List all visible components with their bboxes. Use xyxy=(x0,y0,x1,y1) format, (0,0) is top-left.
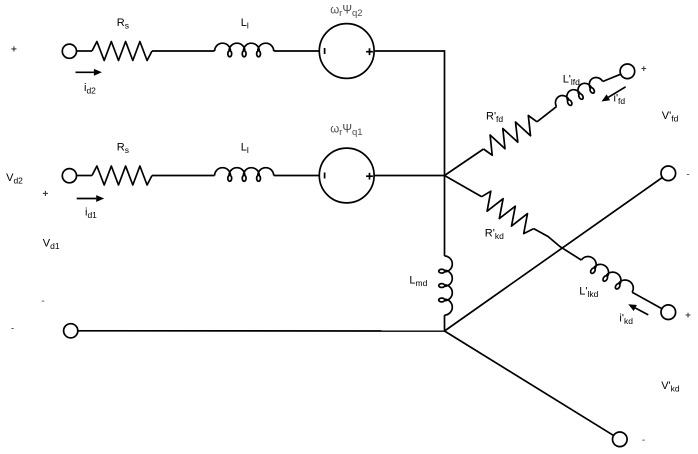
svg-text:R'kd: R'kd xyxy=(485,228,504,242)
svg-text:L'lkd: L'lkd xyxy=(579,286,598,300)
terminal T7 (damper -) xyxy=(613,432,628,447)
svg-text:+: + xyxy=(42,189,48,200)
inductor L'lfd xyxy=(553,75,606,112)
wire xyxy=(534,229,582,261)
terminal T2 (d1 input) xyxy=(62,169,76,183)
wire xyxy=(632,292,662,309)
svg-text:Ll: Ll xyxy=(241,142,249,156)
inductor L'lkd xyxy=(578,254,636,298)
svg-text:i'fd: i'fd xyxy=(614,93,626,107)
svg-text:R'fd: R'fd xyxy=(486,111,503,125)
svg-text:Rs: Rs xyxy=(117,17,129,31)
U1 plus terminal mark xyxy=(366,51,373,53)
wire (bottom rail) xyxy=(78,330,445,332)
U1 minus terminal mark xyxy=(324,48,326,54)
wire (node A to Lmd) xyxy=(444,176,446,257)
wire xyxy=(274,175,320,177)
wire (node A to Rkd) xyxy=(445,176,482,197)
svg-text:+: + xyxy=(11,45,17,56)
wire xyxy=(77,175,93,177)
wire xyxy=(152,50,215,52)
resistor Rs (row 1) xyxy=(92,42,152,61)
wire xyxy=(374,51,444,176)
wire (node B to damper minus terminal) xyxy=(445,331,614,436)
inductor Ll (row 1) xyxy=(215,43,274,57)
resistor R'fd xyxy=(484,116,538,156)
inductor Lmd (magnetizing) xyxy=(439,256,453,315)
svg-text:V'fd: V'fd xyxy=(662,110,679,124)
current arrow i'fd xyxy=(608,87,625,98)
svg-text:ωrΨq2: ωrΨq2 xyxy=(330,5,362,20)
svg-text:V'kd: V'kd xyxy=(661,380,680,394)
U2 minus terminal mark xyxy=(324,173,326,179)
svg-text:Ll: Ll xyxy=(241,17,249,31)
svg-text:-: - xyxy=(686,169,689,180)
current arrow id2 xyxy=(76,71,94,73)
terminal T5 (damper +) xyxy=(661,305,676,320)
svg-text:-: - xyxy=(642,435,645,446)
current arrow i'kd xyxy=(635,308,648,315)
svg-text:id1: id1 xyxy=(85,207,97,221)
svg-text:-: - xyxy=(11,323,14,334)
wire xyxy=(444,315,446,331)
U2 plus terminal mark xyxy=(366,175,373,177)
terminal T3 (bottom common) xyxy=(64,324,78,338)
svg-text:Vd1: Vd1 xyxy=(43,238,60,252)
terminal T4 (field +) xyxy=(620,64,635,79)
svg-text:id2: id2 xyxy=(84,82,96,96)
wire xyxy=(77,50,93,52)
svg-text:+: + xyxy=(685,310,691,321)
svg-text:ωrΨq1: ωrΨq1 xyxy=(330,124,362,139)
wire (node A to Rfd) xyxy=(445,149,484,176)
terminal T1 (d2 input) xyxy=(62,44,76,58)
inductor Ll (row 2) xyxy=(215,168,274,182)
svg-text:-: - xyxy=(41,296,44,307)
source U2 (speed voltage wr*psi_q1) xyxy=(319,148,374,203)
svg-text:+: + xyxy=(641,64,647,75)
current arrow id1 xyxy=(77,198,97,200)
svg-text:i'kd: i'kd xyxy=(619,313,633,327)
wire xyxy=(603,74,621,81)
wire xyxy=(537,107,557,122)
svg-text:Vd2: Vd2 xyxy=(6,172,23,186)
wire xyxy=(374,175,444,177)
wire xyxy=(274,50,320,52)
svg-text:L'lfd: L'lfd xyxy=(563,74,580,88)
wire (node B to field minus terminal) xyxy=(445,178,663,332)
wire xyxy=(152,175,215,177)
terminal T6 (field -) xyxy=(661,166,676,181)
source U1 (speed voltage wr*psi_q2) xyxy=(319,24,374,79)
svg-text:Rs: Rs xyxy=(117,142,129,156)
resistor Rs (row 2) xyxy=(92,166,152,185)
resistor R'kd xyxy=(482,191,534,233)
svg-text:Lmd: Lmd xyxy=(409,275,427,289)
